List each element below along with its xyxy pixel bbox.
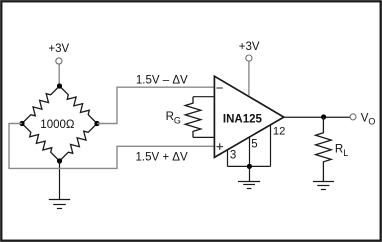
node: bridge left (19, 121, 24, 126)
node: amp ground junction (247, 164, 252, 169)
svg-text:+3V: +3V (48, 43, 69, 55)
svg-text:1000Ω: 1000Ω (40, 119, 75, 131)
svg-text:+3V: +3V (239, 41, 260, 53)
resistor R2 (top-right bridge arm) (60, 86, 98, 124)
ground (RL) (313, 182, 334, 190)
node: bridge right (94, 121, 99, 126)
ground (bridge) (49, 200, 70, 209)
pin 12 wire (270, 125, 272, 167)
terminal: +3V bridge supply (56, 58, 62, 64)
wire: output (284, 116, 350, 118)
wire: right node up to inverting input (97, 87, 214, 123)
resistor R1 (top-left bridge arm) (22, 86, 60, 124)
wire: RG upper pin (193, 96, 214, 98)
svg-text:1.5V – ΔV: 1.5V – ΔV (136, 75, 188, 87)
wire: +3V terminal to bridge top node (58, 64, 60, 86)
wire: +3V terminal to amp top edge (248, 62, 250, 96)
resistor RL (316, 117, 332, 182)
pin 3 wire (227, 150, 229, 167)
svg-text:12: 12 (273, 125, 285, 137)
inverting input marker − (216, 87, 222, 89)
wire: RG lower pin (193, 136, 214, 138)
node: bridge bottom (57, 158, 62, 163)
ground (amp) (238, 182, 260, 189)
wire: pins 3-5-12 common ground rail (228, 165, 271, 167)
non-inverting input marker + (217, 143, 224, 150)
pin 5 wire (249, 137, 251, 166)
terminal: +3V amp supply (246, 55, 252, 61)
svg-text:1.5V + ΔV: 1.5V + ΔV (136, 151, 188, 163)
wire: junction to amp ground (249, 166, 251, 181)
wire: left node around bottom to non-inverting input (9, 124, 214, 169)
svg-text:3: 3 (230, 149, 236, 161)
node: output junction (321, 114, 326, 119)
resistor R4 (bottom-right bridge arm) (60, 124, 98, 162)
op-amp U1 INA125 triangle (214, 76, 283, 157)
resistor R3 (bottom-left bridge arm) (22, 124, 60, 162)
terminal: VO (350, 114, 356, 120)
svg-text:5: 5 (251, 138, 257, 150)
resistor RG (185, 97, 201, 138)
node: bridge top (57, 83, 62, 88)
wire: bridge bottom node to ground (59, 161, 61, 200)
svg-text:INA125: INA125 (223, 114, 263, 126)
